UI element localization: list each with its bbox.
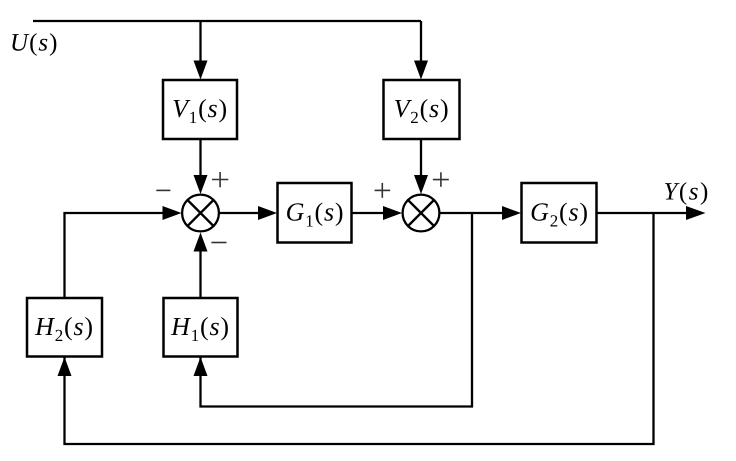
arrowhead into S2 left: [383, 206, 402, 220]
arrowhead into S1 top: [194, 175, 208, 194]
wire: V2 output down to summing junction S2: [420, 139, 422, 176]
arrowhead into S1 bottom: [194, 233, 208, 252]
svg-text:V2(s): V2(s): [394, 94, 450, 127]
summing junction S1: [182, 195, 219, 232]
block V1: [163, 80, 237, 139]
wire: input bus from U(s) along top: [33, 20, 421, 22]
summing junction S2: [403, 195, 440, 232]
arrowhead output Y(s): [686, 206, 706, 220]
block G1: [278, 183, 352, 243]
arrowhead into G2 left: [502, 206, 521, 220]
arrowhead into H2 bottom: [58, 357, 72, 376]
svg-text:H1(s): H1(s): [170, 312, 230, 345]
wire: feedback tap after S2 down, left, up into H1: [201, 213, 473, 407]
svg-text:V1(s): V1(s): [172, 94, 228, 127]
arrowhead into V2 top: [414, 61, 428, 80]
wire: S1 output to G1: [219, 212, 259, 214]
svg-text:U(s): U(s): [10, 30, 58, 57]
wire: S2 output to G2 (tap at x=472): [440, 212, 504, 214]
block H1: [164, 298, 238, 357]
node Y(s) label: [664, 179, 710, 206]
wire: branch from bus down into V1: [199, 21, 201, 62]
sign + (V2 input to S2): [433, 172, 449, 187]
svg-text:G2(s): G2(s): [530, 198, 589, 231]
node U(s) label: [10, 30, 58, 57]
sign + (V1 input to S1): [212, 172, 228, 187]
wire: H2 output up and right into S1: [65, 213, 165, 298]
arrowhead into G1 left: [258, 206, 277, 220]
svg-text:Y(s): Y(s): [664, 179, 710, 206]
arrowhead into V1 top: [194, 61, 208, 80]
arrowhead into S2 top: [414, 175, 428, 194]
wire: V1 output down to summing junction S1: [199, 139, 201, 176]
arrowhead into H1 bottom: [194, 357, 208, 376]
wire: G1 output to S2: [352, 212, 385, 214]
block V2: [384, 80, 460, 139]
arrowhead into S1 left: [163, 206, 182, 220]
svg-text:H2(s): H2(s): [34, 312, 94, 345]
sign − (H1 input to S1): [211, 242, 226, 244]
wire: H1 output up into S1 bottom: [199, 251, 201, 298]
sign + (G1 input to S2): [375, 183, 391, 198]
svg-text:G1(s): G1(s): [286, 198, 345, 231]
wire: G2 output to Y(s) (tap at x=653.5): [597, 212, 688, 214]
block G2: [522, 183, 597, 243]
wire: feedback tap after G2 down, left, up into H2: [65, 213, 654, 444]
sign − (feedback input to S1): [156, 189, 170, 191]
wire: branch from bus down into V2: [420, 21, 422, 62]
block H2: [27, 298, 102, 357]
